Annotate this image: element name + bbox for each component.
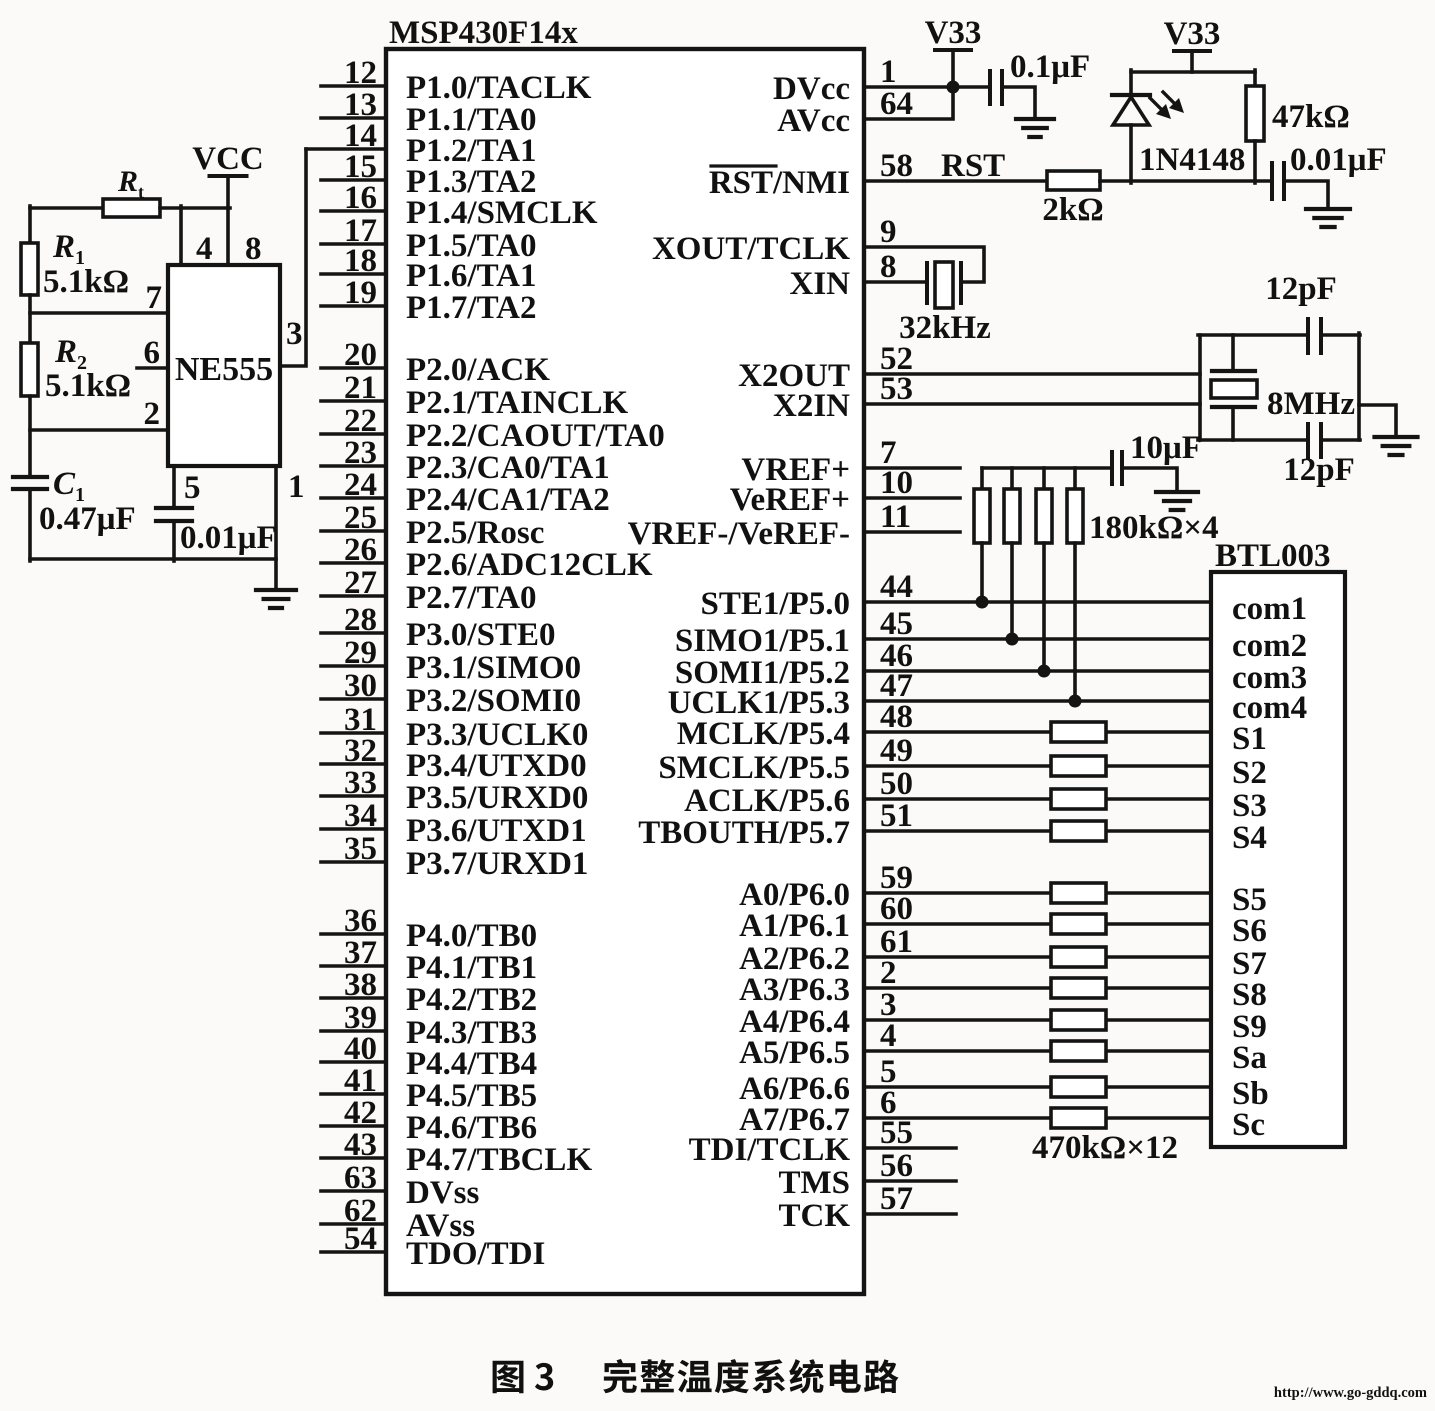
svg-text:1N4148: 1N4148 <box>1139 142 1245 178</box>
capacitor C3 0.1uF body <box>990 71 1002 104</box>
svg-text:33: 33 <box>344 765 377 801</box>
svg-text:1: 1 <box>880 54 897 90</box>
wire 8MHz top rail left <box>1198 333 1308 337</box>
resistor R1 body <box>21 243 38 295</box>
resistor R3 value 2k <box>1042 192 1103 228</box>
crystal Y2 8MHz body <box>1211 335 1257 440</box>
LCD U3 name label BTL003 <box>1215 538 1331 574</box>
caption text 图3 完整温度系统电路 <box>493 1359 899 1393</box>
wire diode D1 to RST rail <box>1129 125 1133 183</box>
svg-text:35: 35 <box>344 831 377 867</box>
resistor R2 value 5.1k <box>45 368 131 404</box>
wire riser R5c <box>1042 468 1046 489</box>
svg-text:com1: com1 <box>1232 591 1307 627</box>
svg-text:com2: com2 <box>1232 628 1307 664</box>
pin 6 A7/P6.7 (right stub + number + label) <box>739 1085 1211 1138</box>
junction pin45/R5b <box>1006 633 1019 646</box>
svg-text:SIMO1/P5.1: SIMO1/P5.1 <box>675 623 850 659</box>
pin 42 P4.6/TB6 (left stub + number + label) <box>321 1095 537 1146</box>
pin 4 A5/P6.5 (right stub + number + label) <box>739 1018 1211 1071</box>
pin 4 number (NE555) <box>196 231 213 267</box>
pin 9 XOUT/TCLK (right stub + number + label) <box>652 214 984 282</box>
wire NE555 pin3 to MSP430 pin14 <box>280 149 306 366</box>
svg-text:16: 16 <box>344 180 377 216</box>
IC U1 MSP430F14x body <box>386 49 864 1294</box>
pin 22 P2.2/CAOUT/TA0 (left stub + number + label) <box>321 403 665 454</box>
svg-text:P3.4/UTXD0: P3.4/UTXD0 <box>406 748 587 784</box>
pin 57 TCK (right stub + number + label) <box>778 1181 956 1234</box>
pin 41 P4.5/TB5 (left stub + number + label) <box>321 1063 537 1114</box>
wire R1 to node pin7 <box>28 295 32 343</box>
LCD pin label S8 <box>1232 977 1267 1013</box>
svg-text:60: 60 <box>880 891 913 927</box>
svg-text:38: 38 <box>344 967 377 1003</box>
LCD pin label Sb <box>1232 1076 1269 1112</box>
wire NE555 ground bottom rail <box>30 557 276 561</box>
pin 12 P1.0/TACLK (left stub + number + label) <box>321 55 592 106</box>
svg-text:2: 2 <box>880 955 897 991</box>
svg-text:P2.7/TA0: P2.7/TA0 <box>406 580 536 616</box>
svg-text:X2IN: X2IN <box>773 388 850 424</box>
LCD pin label com1 <box>1232 591 1307 627</box>
resistor R5d 180k body <box>1067 489 1083 543</box>
svg-text:TMS: TMS <box>778 1165 850 1201</box>
pin 48 MCLK/P5.4 (right stub + number + label) <box>677 699 1211 752</box>
svg-text:V33: V33 <box>925 15 982 51</box>
LCD pin label S2 <box>1232 755 1267 791</box>
pin 33 P3.5/URXD0 (left stub + number + label) <box>321 765 588 816</box>
watermark www.go-gddq.com <box>1274 1385 1427 1401</box>
wire top rail Rt to VCC stub <box>160 206 230 210</box>
svg-text:P1.0/TACLK: P1.0/TACLK <box>406 70 592 106</box>
junction pin44/R5a <box>976 596 989 609</box>
pin 21 P2.1/TAINCLK (left stub + number + label) <box>321 370 628 421</box>
wire C1 to bottom rail <box>28 489 32 561</box>
resistor R6f 470k body (S6) <box>1051 914 1106 934</box>
svg-text:4: 4 <box>196 231 213 267</box>
pin 36 P4.0/TB0 (left stub + number + label) <box>321 903 537 954</box>
IC U2 NE555 body <box>168 265 280 466</box>
pin 39 P4.3/TB3 (left stub + number + label) <box>321 1000 537 1051</box>
resistor R6l 470k body (Sc) <box>1051 1108 1106 1128</box>
resistor bank value label 470kx12 <box>1032 1130 1178 1166</box>
pin 2 A3/P6.3 (right stub + number + label) <box>739 955 1211 1008</box>
wire R5d to pin47 <box>1073 543 1077 701</box>
wire NE555 pin2 line <box>30 428 168 432</box>
svg-text:ACLK/P5.6: ACLK/P5.6 <box>684 783 850 819</box>
svg-text:P4.2/TB2: P4.2/TB2 <box>406 982 537 1018</box>
svg-text:49: 49 <box>880 733 913 769</box>
pin 24 P2.4/CA1/TA2 (left stub + number + label) <box>321 467 610 518</box>
resistor R1 value 5.1k <box>43 264 129 300</box>
LCD pin label S4 <box>1232 820 1267 856</box>
svg-text:P2.1/TAINCLK: P2.1/TAINCLK <box>406 385 628 421</box>
capacitor C6 value 12pF <box>1283 452 1355 488</box>
LCD pin label S1 <box>1232 721 1267 757</box>
ground symbol (C3) <box>1016 119 1054 137</box>
pin 49 SMCLK/P5.5 (right stub + number + label) <box>658 733 1211 786</box>
svg-text:S4: S4 <box>1232 820 1267 856</box>
pin 62 AVss (left stub + number + label) <box>321 1193 475 1244</box>
resistor R4 47k body <box>1246 86 1264 141</box>
capacitor C2 0.01uF body <box>156 508 192 521</box>
diode D1 1N4148 body <box>1112 95 1150 125</box>
pin 18 P1.6/TA1 (left stub + number + label) <box>321 243 536 294</box>
svg-text:S6: S6 <box>1232 913 1267 949</box>
pin 56 TMS (right stub + number + label) <box>778 1148 956 1201</box>
svg-text:P2.5/Rosc: P2.5/Rosc <box>406 515 544 551</box>
svg-text:MCLK/P5.4: MCLK/P5.4 <box>677 716 850 752</box>
wire VREF bus <box>982 466 1110 470</box>
svg-text:51: 51 <box>880 798 913 834</box>
svg-text:P3.6/UTXD1: P3.6/UTXD1 <box>406 813 587 849</box>
svg-text:10: 10 <box>880 465 913 501</box>
wire top rail to R4 <box>1253 70 1257 86</box>
LCD pin label com3 <box>1232 660 1307 696</box>
resistor R6k 470k body (Sb) <box>1051 1077 1106 1097</box>
wire RST net (R3 to C4) <box>1100 179 1272 183</box>
pin 7 VREF+ (right stub + number + label) <box>741 435 960 488</box>
svg-text:63: 63 <box>344 1160 377 1196</box>
svg-text:8MHz: 8MHz <box>1267 386 1355 422</box>
svg-text:5.1kΩ: 5.1kΩ <box>43 264 129 300</box>
ground symbol (NE555) <box>256 590 296 608</box>
pin 43 P4.7/TBCLK (left stub + number + label) <box>321 1127 592 1178</box>
svg-text:0.47μF: 0.47μF <box>39 501 136 537</box>
svg-text:TDI/TCLK: TDI/TCLK <box>689 1132 851 1168</box>
pin 52 X2OUT (right stub + number + label) <box>738 341 1200 394</box>
svg-text:XOUT/TCLK: XOUT/TCLK <box>652 231 850 267</box>
svg-text:42: 42 <box>344 1095 377 1131</box>
power V33 symbol (DVcc) <box>925 15 982 87</box>
pin 1 number (NE555) <box>288 469 305 505</box>
svg-text:SMCLK/P5.5: SMCLK/P5.5 <box>658 750 850 786</box>
pin 40 P4.4/TB4 (left stub + number + label) <box>321 1031 537 1082</box>
resistor bank value label 180kx4 <box>1089 510 1219 546</box>
ground symbol (C4) <box>1306 209 1350 227</box>
svg-text:30: 30 <box>344 668 377 704</box>
pin 17 P1.5/TA0 (left stub + number + label) <box>321 213 536 264</box>
pin 31 P3.3/UCLK0 (left stub + number + label) <box>321 702 588 753</box>
svg-text:V33: V33 <box>1164 16 1221 52</box>
svg-text:10μF: 10μF <box>1130 430 1202 466</box>
svg-text:40: 40 <box>344 1031 377 1067</box>
svg-text:22: 22 <box>344 403 377 439</box>
svg-text:STE1/P5.0: STE1/P5.0 <box>701 586 850 622</box>
wire NE555 pin8 vertical <box>226 208 230 265</box>
svg-text:64: 64 <box>880 86 913 122</box>
svg-text:Sa: Sa <box>1232 1040 1267 1076</box>
svg-text:470kΩ×12: 470kΩ×12 <box>1032 1130 1178 1166</box>
svg-text:43: 43 <box>344 1127 377 1163</box>
svg-text:21: 21 <box>344 370 377 406</box>
svg-text:P3.0/STE0: P3.0/STE0 <box>406 617 555 653</box>
wire R4 to RST rail <box>1253 141 1257 183</box>
wire C7 to ground <box>1123 468 1177 492</box>
svg-text:P4.7/TBCLK: P4.7/TBCLK <box>406 1142 592 1178</box>
LCD pin label Sc <box>1232 1107 1265 1143</box>
svg-text:12pF: 12pF <box>1265 271 1337 307</box>
svg-text:P3.7/URXD1: P3.7/URXD1 <box>406 846 588 882</box>
pin 16 P1.4/SMCLK (left stub + number + label) <box>321 180 598 231</box>
pin 3 A4/P6.4 (right stub + number + label) <box>739 987 1211 1040</box>
crystal Y2 label 8MHz <box>1267 386 1355 422</box>
wire NE555 pin1 to ground <box>274 466 278 590</box>
svg-text:TCK: TCK <box>778 1198 850 1234</box>
IC U2 name label NE555 <box>175 351 273 388</box>
svg-text:24: 24 <box>344 467 377 503</box>
pin 2 number (NE555) <box>144 396 161 432</box>
svg-text:S2: S2 <box>1232 755 1267 791</box>
capacitor C2 value 0.01uF <box>180 520 277 556</box>
resistor R2 body <box>21 343 38 396</box>
svg-text:http://www.go-gddq.com: http://www.go-gddq.com <box>1274 1385 1427 1401</box>
svg-text:P4.4/TB4: P4.4/TB4 <box>406 1046 537 1082</box>
resistor R6c 470k body (S3) <box>1051 789 1106 809</box>
resistor Rt body <box>103 199 160 217</box>
svg-text:P2.6/ADC12CLK: P2.6/ADC12CLK <box>406 547 653 583</box>
power V33 symbol (reset) <box>1164 16 1221 72</box>
svg-text:18: 18 <box>344 243 377 279</box>
pin 61 A2/P6.2 (right stub + number + label) <box>739 924 1211 977</box>
svg-text:20: 20 <box>344 337 377 373</box>
wire 8MHz left rail <box>1198 335 1202 440</box>
wire 8MHz bottom rail right <box>1321 438 1360 442</box>
LCD pin label S5 <box>1232 882 1267 918</box>
ground symbol (8MHz) <box>1375 437 1418 455</box>
wire C3 to ground <box>1003 87 1035 119</box>
junction pin46/R5c <box>1038 665 1051 678</box>
svg-text:11: 11 <box>880 499 911 535</box>
wire R5a to pin44 <box>980 543 984 602</box>
pin 19 P1.7/TA2 (left stub + number + label) <box>321 275 536 326</box>
wire 8MHz to ground <box>1359 405 1396 437</box>
ground symbol (C7) <box>1156 492 1198 510</box>
pin 11 VREF-/VeREF- (right stub + number + label) <box>628 499 960 552</box>
svg-text:XIN: XIN <box>789 266 850 302</box>
wire 8MHz bottom rail left <box>1198 438 1308 442</box>
wire 8MHz right rail <box>1357 333 1361 440</box>
resistor R6h 470k body (S8) <box>1051 978 1106 998</box>
resistor R6j 470k body (Sa) <box>1051 1041 1106 1061</box>
svg-text:P3.1/SIMO0: P3.1/SIMO0 <box>406 650 581 686</box>
pin 10 VeREF+ (right stub + number + label) <box>730 465 960 518</box>
svg-text:28: 28 <box>344 602 377 638</box>
resistor R5b 180k body <box>1004 489 1020 543</box>
svg-text:P1.4/SMCLK: P1.4/SMCLK <box>406 195 598 231</box>
pin 38 P4.2/TB2 (left stub + number + label) <box>321 967 537 1018</box>
svg-text:3: 3 <box>286 316 303 352</box>
IC U1 name label MSP430F14x <box>389 15 578 51</box>
diode D1 arrows <box>1150 92 1184 119</box>
svg-text:P1.7/TA2: P1.7/TA2 <box>406 290 536 326</box>
pin 34 P3.6/UTXD1 (left stub + number + label) <box>321 798 587 849</box>
LCD pin label Sa <box>1232 1040 1267 1076</box>
svg-text:A5/P6.5: A5/P6.5 <box>739 1035 850 1071</box>
svg-text:50: 50 <box>880 766 913 802</box>
pin 6 number (NE555) <box>144 335 161 371</box>
LCD pin label S6 <box>1232 913 1267 949</box>
svg-text:8: 8 <box>245 231 262 267</box>
wire NE555 pin7 line <box>30 311 168 315</box>
pin 35 P3.7/URXD1 (left stub + number + label) <box>321 831 588 882</box>
svg-text:27: 27 <box>344 565 377 601</box>
resistor R6i 470k body (S9) <box>1051 1010 1106 1030</box>
resistor R2 label <box>54 334 87 374</box>
svg-text:RST/NMI: RST/NMI <box>709 165 850 201</box>
svg-text:P2.2/CAOUT/TA0: P2.2/CAOUT/TA0 <box>406 418 665 454</box>
svg-text:NE555: NE555 <box>175 351 273 388</box>
pin 7 number (NE555) <box>146 280 163 316</box>
capacitor C5 12pF body <box>1308 319 1321 353</box>
svg-text:BTL003: BTL003 <box>1215 538 1331 574</box>
svg-text:DVss: DVss <box>406 1175 480 1211</box>
svg-text:VREF-/VeREF-: VREF-/VeREF- <box>628 516 850 552</box>
svg-text:Sc: Sc <box>1232 1107 1265 1143</box>
pin 23 P2.3/CA0/TA1 (left stub + number + label) <box>321 435 610 486</box>
capacitor C4 0.01uF body <box>1272 163 1284 199</box>
svg-text:58: 58 <box>880 148 913 184</box>
capacitor C6 12pF body <box>1308 424 1321 457</box>
svg-text:MSP430F14x: MSP430F14x <box>389 15 578 51</box>
svg-text:0.01μF: 0.01μF <box>1290 142 1387 178</box>
resistor R6g 470k body (S7) <box>1051 947 1106 967</box>
capacitor C1 body <box>13 477 47 489</box>
svg-text:TDO/TDI: TDO/TDI <box>406 1236 545 1272</box>
node label RST <box>941 148 1005 184</box>
capacitor C1 label <box>53 466 85 506</box>
resistor R6e 470k body (S5) <box>1051 883 1106 903</box>
svg-text:37: 37 <box>344 935 377 971</box>
junction DVcc/AVcc/V33 <box>947 81 960 94</box>
svg-text:RST: RST <box>941 148 1005 184</box>
svg-text:P3.5/URXD0: P3.5/URXD0 <box>406 780 588 816</box>
resistor Rt label <box>117 165 144 202</box>
wire C4 to ground <box>1285 181 1328 209</box>
pin 55 TDI/TCLK (right stub + number + label) <box>689 1115 956 1168</box>
capacitor C7 value 10uF <box>1130 430 1202 466</box>
svg-text:25: 25 <box>344 500 377 536</box>
svg-text:9: 9 <box>880 214 897 250</box>
svg-text:57: 57 <box>880 1181 913 1217</box>
pin 8 number (NE555) <box>245 231 262 267</box>
svg-text:VeREF+: VeREF+ <box>730 482 850 518</box>
svg-text:0.01μF: 0.01μF <box>180 520 277 556</box>
LCD pin label com2 <box>1232 628 1307 664</box>
capacitor C5 value 12pF <box>1265 271 1337 307</box>
capacitor C3 value 0.1uF <box>1010 49 1090 85</box>
svg-text:A1/P6.1: A1/P6.1 <box>739 908 850 944</box>
pin 53 X2IN (right stub + number + label) <box>773 371 1200 424</box>
svg-text:S3: S3 <box>1232 788 1267 824</box>
crystal Y1 label 32kHz <box>899 310 991 346</box>
LCD U3 BTL003 body <box>1211 572 1345 1147</box>
svg-text:45: 45 <box>880 606 913 642</box>
svg-text:23: 23 <box>344 435 377 471</box>
svg-text:P4.0/TB0: P4.0/TB0 <box>406 918 537 954</box>
svg-text:1: 1 <box>288 469 305 505</box>
pin 50 ACLK/P5.6 (right stub + number + label) <box>684 766 1211 819</box>
resistor R5c 180k body <box>1036 489 1052 543</box>
svg-text:19: 19 <box>344 275 377 311</box>
pin 13 P1.1/TA0 (left stub + number + label) <box>321 87 536 138</box>
svg-text:5: 5 <box>184 470 201 506</box>
pin 5 A6/P6.6 (right stub + number + label) <box>739 1054 1211 1107</box>
svg-text:54: 54 <box>344 1221 377 1257</box>
pin 60 A1/P6.1 (right stub + number + label) <box>739 891 1211 944</box>
pin 14 P1.2/TA1 (left stub + number + label) <box>306 118 536 169</box>
svg-text:32: 32 <box>344 733 377 769</box>
wire NE555 pin5 stub down <box>172 466 176 508</box>
wire riser R5b <box>1010 468 1014 489</box>
wire XIN to Y1 <box>0 0 1 1</box>
svg-text:S8: S8 <box>1232 977 1267 1013</box>
pin 64 AVcc (right stub + number + label) <box>777 86 953 139</box>
svg-text:AVcc: AVcc <box>777 103 850 139</box>
pin 29 P3.1/SIMO0 (left stub + number + label) <box>321 635 581 686</box>
svg-text:P3.2/SOMI0: P3.2/SOMI0 <box>406 683 581 719</box>
pin 26 P2.6/ADC12CLK (left stub + number + label) <box>321 532 653 583</box>
pin 30 P3.2/SOMI0 (left stub + number + label) <box>321 668 581 719</box>
pin 15 P1.3/TA2 (left stub + number + label) <box>321 149 536 200</box>
pin 3 number (NE555) <box>286 316 303 352</box>
svg-text:P4.6/TB6: P4.6/TB6 <box>406 1110 537 1146</box>
svg-text:4: 4 <box>880 1018 897 1054</box>
pin 5 number (NE555) <box>184 470 201 506</box>
capacitor C4 value 0.01uF <box>1290 142 1387 178</box>
svg-text:44: 44 <box>880 569 913 605</box>
pin 63 DVss (left stub + number + label) <box>321 1160 480 1211</box>
pin 47 UCLK1/P5.3 (right stub + number + label) <box>668 668 1211 721</box>
pin 58 RST/NMI (right stub + number + label) <box>709 148 1047 201</box>
svg-text:8: 8 <box>880 249 897 285</box>
pin 44 STE1/P5.0 (right stub + number + label) <box>701 569 1211 622</box>
wire R5b to pin45 <box>1010 543 1014 639</box>
svg-text:47kΩ: 47kΩ <box>1272 99 1350 135</box>
svg-text:DVcc: DVcc <box>773 71 850 107</box>
resistor R6b 470k body (S2) <box>1051 756 1106 776</box>
pin 45 SIMO1/P5.1 (right stub + number + label) <box>675 606 1211 659</box>
pin 54 TDO/TDI (left stub + number + label) <box>321 1221 545 1272</box>
capacitor C1 value 0.47uF <box>39 501 136 537</box>
svg-text:12: 12 <box>344 55 377 91</box>
resistor R6a 470k body (S1) <box>1051 722 1106 742</box>
pin 59 A0/P6.0 (right stub + number + label) <box>739 860 1211 913</box>
svg-text:34: 34 <box>344 798 377 834</box>
svg-text:P4.5/TB5: P4.5/TB5 <box>406 1078 537 1114</box>
wire R5c to pin46 <box>1042 543 1046 671</box>
LCD pin label S3 <box>1232 788 1267 824</box>
resistor R5a 180k body <box>974 489 990 543</box>
svg-text:36: 36 <box>344 903 377 939</box>
svg-text:2kΩ: 2kΩ <box>1042 192 1103 228</box>
svg-text:TBOUTH/P5.7: TBOUTH/P5.7 <box>638 815 850 851</box>
svg-text:P2.4/CA1/TA2: P2.4/CA1/TA2 <box>406 482 610 518</box>
wire NE555 pin6 stub <box>137 366 168 370</box>
svg-text:6: 6 <box>144 335 161 371</box>
wire C2 to bottom rail <box>172 521 176 561</box>
svg-text:55: 55 <box>880 1115 913 1151</box>
svg-text:P4.1/TB1: P4.1/TB1 <box>406 950 537 986</box>
wire diode/resistor top rail <box>1131 70 1255 74</box>
pin 28 P3.0/STE0 (left stub + number + label) <box>321 602 555 653</box>
svg-text:P1.6/TA1: P1.6/TA1 <box>406 258 536 294</box>
svg-text:26: 26 <box>344 532 377 568</box>
svg-text:P2.3/CA0/TA1: P2.3/CA0/TA1 <box>406 450 610 486</box>
svg-text:S1: S1 <box>1232 721 1267 757</box>
wire left rail top (VCC corner to R1) <box>28 206 32 243</box>
wire top rail to diode D1 <box>1129 70 1133 95</box>
